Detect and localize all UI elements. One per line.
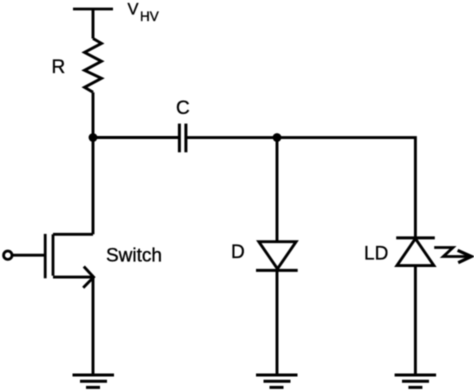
- source arrow: [83, 267, 93, 288]
- svg-text:R: R: [52, 57, 66, 78]
- wire capacitor to node B and corner: [186, 138, 416, 238]
- wire node A down to transistor drain: [92, 138, 95, 235]
- node B junction dot: [273, 133, 282, 142]
- node A junction dot: [89, 133, 98, 142]
- svg-text:HV: HV: [140, 9, 159, 24]
- gate bar: [44, 234, 47, 278]
- label VHV: [128, 1, 159, 24]
- wire LD to ground: [414, 266, 417, 375]
- svg-text:C: C: [176, 98, 190, 119]
- channel bar: [52, 234, 55, 275]
- wire rail to resistor: [92, 9, 95, 39]
- resistor R: [85, 39, 102, 93]
- laser diode LD: [396, 238, 435, 266]
- svg-text:D: D: [231, 242, 245, 263]
- svg-text:Switch: Switch: [106, 246, 162, 267]
- input terminal circle: [4, 251, 12, 259]
- ground under D: [256, 375, 298, 387]
- emission arrow of LD: [434, 248, 471, 263]
- ground under transistor: [73, 375, 115, 387]
- wire node A to capacitor: [93, 136, 179, 139]
- wire source to ground: [92, 277, 95, 375]
- ground under LD: [395, 375, 437, 387]
- drain lead: [53, 233, 93, 236]
- transistor Q1 switch: [4, 234, 94, 288]
- svg-text:LD: LD: [364, 244, 388, 265]
- wire node B down to diode D: [276, 138, 279, 242]
- wire resistor to node A: [92, 92, 95, 137]
- source lead: [53, 276, 94, 279]
- wire diode D to ground: [276, 270, 279, 375]
- capacitor C: [179, 124, 186, 153]
- diode D: [256, 242, 298, 271]
- gate lead wire: [13, 254, 45, 257]
- svg-text:V: V: [128, 1, 139, 19]
- power rail VHV: [73, 8, 113, 11]
